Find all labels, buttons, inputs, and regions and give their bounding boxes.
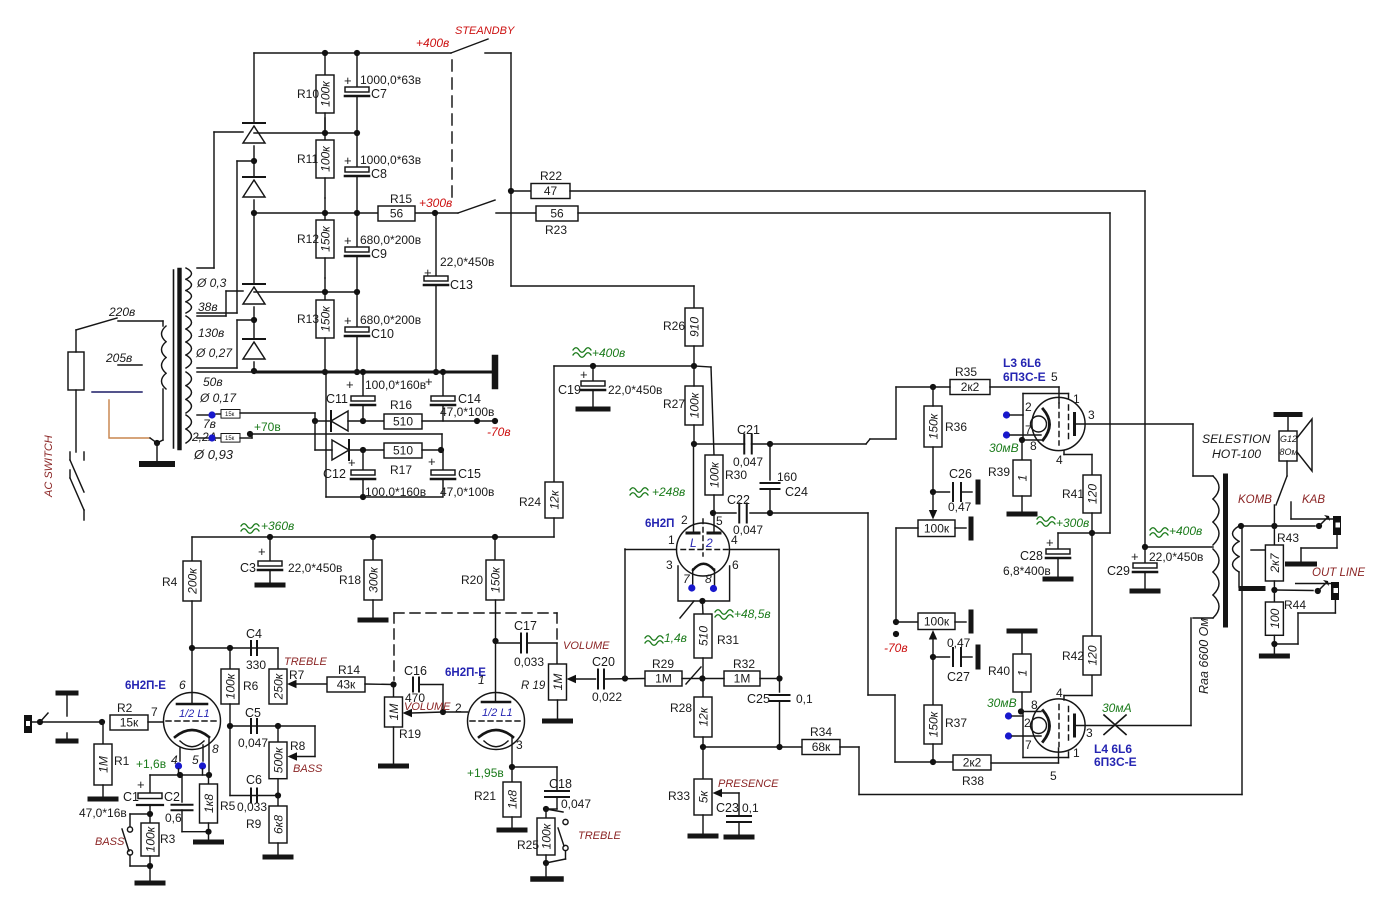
- svg-text:250к: 250к: [272, 672, 286, 700]
- svg-text:47,0*100в: 47,0*100в: [440, 405, 494, 419]
- svg-text:+: +: [258, 544, 266, 559]
- svg-text:22,0*450в: 22,0*450в: [608, 383, 662, 397]
- svg-text:1к8: 1к8: [202, 794, 216, 813]
- svg-text:C27: C27: [947, 670, 970, 684]
- svg-text:56: 56: [390, 207, 404, 221]
- svg-text:30мА: 30мА: [1102, 701, 1132, 715]
- svg-text:5к: 5к: [697, 789, 711, 803]
- svg-text:R20: R20: [461, 573, 483, 587]
- svg-text:510: 510: [393, 444, 413, 458]
- svg-text:Raa 6600 Ом: Raa 6600 Ом: [1197, 618, 1211, 694]
- svg-text:VOLUME: VOLUME: [563, 640, 610, 652]
- svg-text:G12: G12: [1280, 434, 1297, 444]
- svg-text:C13: C13: [450, 278, 473, 292]
- svg-text:5: 5: [1051, 370, 1058, 384]
- svg-text:TREBLE: TREBLE: [284, 656, 327, 668]
- svg-text:R24: R24: [519, 495, 541, 509]
- svg-text:R15: R15: [390, 192, 412, 206]
- svg-text:+300в: +300в: [419, 196, 452, 210]
- svg-text:R31: R31: [717, 633, 739, 647]
- svg-text:+: +: [348, 455, 356, 470]
- svg-text:1000,0*63в: 1000,0*63в: [360, 73, 421, 87]
- svg-text:R11: R11: [297, 152, 318, 166]
- svg-text:+400в: +400в: [1169, 524, 1202, 538]
- svg-text:+1,6в: +1,6в: [136, 757, 166, 771]
- svg-text:R14: R14: [338, 663, 360, 677]
- svg-text:15к: 15к: [225, 436, 235, 442]
- svg-text:6к8: 6к8: [272, 815, 286, 834]
- svg-text:43к: 43к: [337, 678, 356, 692]
- svg-text:100к: 100к: [688, 391, 702, 418]
- svg-text:160: 160: [777, 470, 797, 484]
- svg-text:+300в: +300в: [1056, 516, 1089, 530]
- svg-text:R12: R12: [297, 232, 319, 246]
- svg-text:L3 6L6: L3 6L6: [1003, 356, 1041, 370]
- svg-text:6П3С-Е: 6П3С-Е: [1003, 370, 1046, 384]
- svg-text:100,0*160в: 100,0*160в: [365, 378, 426, 392]
- svg-text:100к: 100к: [708, 461, 722, 488]
- svg-text:4: 4: [731, 533, 738, 547]
- svg-text:Ø 0,27: Ø 0,27: [195, 346, 233, 360]
- svg-text:R29: R29: [652, 657, 674, 671]
- svg-text:6: 6: [732, 558, 739, 572]
- svg-text:8Ом: 8Ом: [1280, 447, 1298, 457]
- svg-text:22,0*450в: 22,0*450в: [288, 561, 342, 575]
- svg-text:C2: C2: [164, 790, 180, 804]
- svg-text:+: +: [580, 367, 588, 382]
- svg-text:100к: 100к: [319, 145, 333, 172]
- svg-text:+400в: +400в: [416, 36, 449, 50]
- svg-text:1к8: 1к8: [506, 790, 520, 809]
- svg-text:100: 100: [1268, 608, 1282, 628]
- svg-text:+: +: [1131, 549, 1139, 564]
- svg-text:KOMB: KOMB: [1238, 494, 1272, 506]
- svg-text:1M: 1M: [387, 704, 401, 721]
- svg-text:1,4в: 1,4в: [664, 631, 687, 645]
- svg-text:220в: 220в: [108, 305, 135, 319]
- svg-text:R21: R21: [474, 789, 496, 803]
- svg-text:510: 510: [697, 626, 711, 646]
- svg-text:150к: 150к: [319, 305, 333, 332]
- svg-text:100к: 100к: [144, 825, 158, 852]
- svg-text:R23: R23: [545, 223, 567, 237]
- svg-text:0,1: 0,1: [742, 801, 759, 815]
- svg-text:6,8*400в: 6,8*400в: [1003, 564, 1051, 578]
- svg-text:0,047: 0,047: [238, 736, 268, 750]
- svg-text:C15: C15: [458, 467, 481, 481]
- svg-text:150к: 150к: [319, 225, 333, 252]
- svg-text:Ø 0,17: Ø 0,17: [199, 391, 237, 405]
- svg-text:R13: R13: [297, 312, 319, 326]
- svg-text:1: 1: [478, 673, 485, 687]
- svg-text:C6: C6: [246, 773, 262, 787]
- svg-text:C10: C10: [371, 327, 394, 341]
- svg-text:R41: R41: [1062, 487, 1084, 501]
- svg-text:BASS: BASS: [95, 836, 125, 848]
- svg-text:C9: C9: [371, 247, 387, 261]
- svg-text:2к2: 2к2: [961, 380, 980, 394]
- svg-text:HOT-100: HOT-100: [1212, 447, 1261, 461]
- svg-text:R16: R16: [390, 398, 412, 412]
- svg-text:STEANDBY: STEANDBY: [455, 25, 515, 37]
- svg-text:1M: 1M: [97, 756, 111, 773]
- svg-text:-70в: -70в: [884, 641, 908, 655]
- svg-text:C19: C19: [558, 383, 581, 397]
- svg-text:150к: 150к: [927, 710, 941, 737]
- svg-text:R1: R1: [114, 754, 130, 768]
- svg-text:12к: 12к: [548, 489, 562, 509]
- svg-text:0,047: 0,047: [561, 797, 591, 811]
- svg-text:R10: R10: [297, 87, 319, 101]
- svg-text:120: 120: [1086, 645, 1100, 665]
- svg-text:1: 1: [668, 533, 675, 547]
- svg-text:R25: R25: [517, 838, 539, 852]
- svg-text:2к2: 2к2: [963, 756, 982, 770]
- svg-text:R5: R5: [220, 799, 236, 813]
- svg-text:22,0*450в: 22,0*450в: [440, 255, 494, 269]
- svg-text:0,6: 0,6: [165, 811, 182, 825]
- svg-text:+48,5в: +48,5в: [734, 607, 771, 621]
- svg-text:C17: C17: [514, 619, 537, 633]
- svg-text:R9: R9: [246, 817, 262, 831]
- svg-text:R36: R36: [945, 420, 967, 434]
- svg-text:2: 2: [455, 701, 462, 715]
- svg-text:2: 2: [1024, 716, 1031, 730]
- svg-text:+248в: +248в: [652, 485, 685, 499]
- svg-text:4: 4: [1056, 686, 1063, 700]
- svg-text:130в: 130в: [198, 326, 224, 340]
- svg-text:200к: 200к: [186, 567, 200, 595]
- svg-text:+: +: [344, 73, 352, 88]
- svg-text:8: 8: [212, 742, 219, 756]
- svg-text:R22: R22: [540, 169, 562, 183]
- svg-text:C21: C21: [737, 423, 760, 437]
- svg-text:0,033: 0,033: [237, 800, 267, 814]
- svg-text:C11: C11: [326, 392, 348, 406]
- svg-text:150к: 150к: [927, 412, 941, 439]
- svg-text:56: 56: [550, 207, 564, 221]
- svg-text:+400в: +400в: [592, 346, 625, 360]
- svg-text:R35: R35: [955, 365, 977, 379]
- svg-text:150к: 150к: [489, 566, 503, 593]
- svg-text:R8: R8: [290, 739, 306, 753]
- svg-text:L: L: [690, 536, 697, 550]
- svg-text:5: 5: [716, 514, 723, 528]
- svg-text:Ø 0,3: Ø 0,3: [196, 276, 227, 290]
- svg-text:C29: C29: [1107, 564, 1130, 578]
- svg-text:R4: R4: [162, 575, 178, 589]
- svg-text:510: 510: [393, 415, 413, 429]
- svg-text:3: 3: [1086, 726, 1093, 740]
- svg-text:+: +: [344, 153, 352, 168]
- svg-text:C16: C16: [404, 664, 427, 678]
- svg-text:1/2 L1: 1/2 L1: [179, 708, 210, 720]
- svg-text:68к: 68к: [812, 740, 831, 754]
- svg-text:2к7: 2к7: [1268, 552, 1282, 573]
- svg-text:205в: 205в: [105, 351, 132, 365]
- svg-text:1: 1: [1016, 670, 1030, 677]
- svg-text:5: 5: [192, 753, 199, 767]
- svg-text:100к: 100к: [924, 614, 950, 628]
- svg-text:1M: 1M: [655, 672, 672, 686]
- svg-text:22,0*450в: 22,0*450в: [1149, 550, 1203, 564]
- svg-text:L4 6L6: L4 6L6: [1094, 742, 1132, 756]
- svg-text:R37: R37: [945, 716, 967, 730]
- svg-text:C3: C3: [240, 561, 256, 575]
- svg-text:C5: C5: [245, 706, 261, 720]
- svg-text:AC SWITCH: AC SWITCH: [43, 435, 55, 498]
- svg-text:R30: R30: [725, 468, 747, 482]
- svg-text:C28: C28: [1020, 549, 1043, 563]
- svg-text:1M: 1M: [734, 672, 751, 686]
- svg-text:8: 8: [1030, 439, 1037, 453]
- svg-text:+: +: [424, 265, 432, 280]
- svg-text:47: 47: [544, 184, 558, 198]
- svg-text:R17: R17: [390, 463, 412, 477]
- svg-text:TREBLE: TREBLE: [578, 830, 621, 842]
- svg-text:C24: C24: [785, 485, 808, 499]
- svg-text:0,47: 0,47: [947, 636, 971, 650]
- svg-text:C8: C8: [371, 167, 387, 181]
- svg-text:R34: R34: [810, 725, 832, 739]
- svg-text:47,0*16в: 47,0*16в: [79, 806, 127, 820]
- svg-text:R28: R28: [670, 701, 692, 715]
- svg-text:0,022: 0,022: [592, 690, 622, 704]
- svg-text:+: +: [346, 377, 354, 392]
- svg-text:3: 3: [1088, 408, 1095, 422]
- svg-text:C18: C18: [549, 777, 572, 791]
- svg-text:1: 1: [1016, 475, 1030, 482]
- svg-text:50в: 50в: [203, 375, 223, 389]
- svg-text:C22: C22: [727, 493, 750, 507]
- svg-text:R38: R38: [962, 774, 984, 788]
- svg-text:12к: 12к: [697, 706, 711, 726]
- svg-text:R33: R33: [668, 789, 690, 803]
- svg-text:7в: 7в: [203, 417, 216, 431]
- svg-text:C7: C7: [371, 87, 387, 101]
- svg-text:+360в: +360в: [261, 519, 294, 533]
- svg-text:R2: R2: [117, 701, 133, 715]
- svg-text:-70в: -70в: [487, 425, 511, 439]
- svg-text:38в: 38в: [198, 300, 218, 314]
- svg-text:2: 2: [705, 536, 713, 550]
- svg-text:C20: C20: [592, 655, 615, 669]
- svg-text:0,047: 0,047: [733, 455, 763, 469]
- svg-text:500к: 500к: [272, 746, 286, 773]
- svg-text:5: 5: [1050, 769, 1057, 783]
- svg-text:C4: C4: [246, 627, 262, 641]
- svg-text:+70в: +70в: [254, 420, 281, 434]
- svg-text:BASS: BASS: [293, 763, 323, 775]
- svg-text:0,47: 0,47: [948, 500, 972, 514]
- svg-text:+: +: [344, 233, 352, 248]
- svg-text:6Н2П-Е: 6Н2П-Е: [125, 680, 166, 692]
- svg-text:OUT LINE: OUT LINE: [1312, 567, 1365, 579]
- svg-text:910: 910: [688, 317, 702, 337]
- svg-text:30мВ: 30мВ: [989, 441, 1019, 455]
- svg-text:R3: R3: [160, 832, 176, 846]
- svg-text:Ø 0,93: Ø 0,93: [193, 447, 234, 462]
- svg-text:R32: R32: [733, 657, 755, 671]
- svg-text:C25: C25: [747, 692, 770, 706]
- svg-text:100к: 100к: [224, 672, 238, 699]
- svg-text:100к: 100к: [924, 521, 950, 535]
- svg-text:R42: R42: [1062, 649, 1084, 663]
- svg-text:6П3С-Е: 6П3С-Е: [1094, 755, 1137, 769]
- svg-text:R26: R26: [663, 319, 685, 333]
- svg-text:680,0*200в: 680,0*200в: [360, 313, 421, 327]
- svg-text:0,033: 0,033: [514, 655, 544, 669]
- svg-text:1: 1: [1073, 746, 1080, 760]
- svg-text:15к: 15к: [120, 716, 139, 730]
- svg-text:0,1: 0,1: [796, 692, 813, 706]
- svg-text:+: +: [425, 374, 433, 389]
- svg-text:R 19: R 19: [521, 680, 546, 692]
- svg-text:47,0*100в: 47,0*100в: [440, 485, 494, 499]
- svg-text:15к: 15к: [225, 412, 235, 418]
- svg-text:100к: 100к: [540, 822, 554, 849]
- svg-text:R44: R44: [1284, 598, 1306, 612]
- svg-text:+: +: [344, 313, 352, 328]
- svg-text:1/2 L1: 1/2 L1: [482, 707, 513, 719]
- svg-text:R39: R39: [988, 465, 1010, 479]
- svg-text:R18: R18: [339, 573, 361, 587]
- svg-text:PRESENCE: PRESENCE: [718, 778, 779, 790]
- svg-text:2: 2: [681, 513, 688, 527]
- svg-text:300к: 300к: [367, 566, 381, 593]
- svg-text:330: 330: [246, 658, 266, 672]
- svg-text:SELESTION: SELESTION: [1202, 432, 1271, 446]
- svg-text:C14: C14: [458, 392, 481, 406]
- svg-text:120: 120: [1086, 484, 1100, 504]
- svg-text:1000,0*63в: 1000,0*63в: [360, 153, 421, 167]
- svg-text:7: 7: [1025, 738, 1032, 752]
- svg-text:6: 6: [179, 678, 186, 692]
- svg-text:KAB: KAB: [1302, 494, 1325, 506]
- svg-text:R43: R43: [1277, 531, 1299, 545]
- svg-text:R6: R6: [243, 679, 259, 693]
- svg-text:2: 2: [1025, 400, 1032, 414]
- svg-text:6Н2П: 6Н2П: [645, 518, 674, 530]
- svg-text:R40: R40: [988, 664, 1010, 678]
- svg-text:+1,95в: +1,95в: [467, 766, 504, 780]
- svg-text:R19: R19: [399, 727, 421, 741]
- svg-text:100к: 100к: [319, 80, 333, 107]
- svg-text:R7: R7: [289, 668, 305, 682]
- svg-text:1: 1: [1073, 392, 1080, 406]
- svg-text:C23: C23: [716, 801, 739, 815]
- svg-text:30мВ: 30мВ: [987, 696, 1017, 710]
- svg-text:8: 8: [1031, 698, 1038, 712]
- svg-text:1M: 1M: [551, 674, 565, 691]
- svg-text:680,0*200в: 680,0*200в: [360, 233, 421, 247]
- svg-text:+: +: [1046, 535, 1054, 550]
- svg-text:C26: C26: [949, 467, 972, 481]
- svg-text:3: 3: [666, 558, 673, 572]
- svg-text:R27: R27: [663, 397, 685, 411]
- svg-text:4: 4: [1056, 453, 1063, 467]
- svg-text:8: 8: [705, 572, 712, 586]
- svg-text:7: 7: [151, 705, 158, 719]
- svg-text:+: +: [428, 454, 436, 469]
- svg-text:3: 3: [516, 738, 523, 752]
- svg-text:C1: C1: [123, 790, 139, 804]
